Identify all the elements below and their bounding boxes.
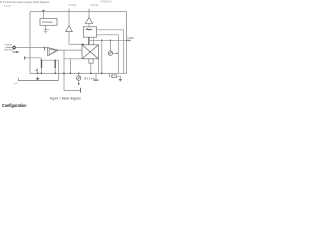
pin B tick and label (charge pump C+) xyxy=(68,9,70,12)
vertical wire x64 down xyxy=(63,50,65,90)
R1 lead to rail xyxy=(41,68,43,73)
wire box to ground xyxy=(116,76,120,79)
svg-text:Cboot2: Cboot2 xyxy=(91,4,100,7)
I1 output arrow down xyxy=(78,80,80,83)
wire pin A to oscillator xyxy=(43,12,45,19)
oscillator box xyxy=(40,19,57,26)
pin C tick and label (Vboost) xyxy=(88,9,90,12)
svg-text:8.1.2 Internal power supply bl: 8.1.2 Internal power supply block diagra… xyxy=(0,0,49,4)
svg-text:Cboot1: Cboot1 xyxy=(69,4,78,7)
svg-text:and driver: and driver xyxy=(4,49,15,52)
buffer triangle U3 (up) xyxy=(85,17,92,23)
svg-text:7.4.3.2: 7.4.3.2 xyxy=(4,5,12,8)
error amplifier U1 xyxy=(48,48,59,56)
R2 lead to rail xyxy=(54,68,56,73)
wire down to divider xyxy=(40,58,42,62)
input pin wire left stub xyxy=(6,46,13,48)
Vout wire xyxy=(89,39,126,41)
svg-text:Cgnd: Cgnd xyxy=(13,83,19,85)
channel line Q1 xyxy=(92,37,94,44)
input pin circle xyxy=(13,46,15,48)
input wire to error amp xyxy=(16,47,48,49)
resistor R2 bar xyxy=(54,60,56,68)
gate bar Q1 xyxy=(88,37,89,44)
wire h1 from box2 xyxy=(97,30,124,74)
svg-text:Oscillator: Oscillator xyxy=(42,20,53,24)
wire y58.8 under X-box xyxy=(64,58,82,60)
wire pin C down xyxy=(88,12,90,18)
wire U2 base down xyxy=(68,32,70,45)
svg-text:ATA6870N: ATA6870N xyxy=(100,1,112,4)
vertical x70.4 to rail xyxy=(69,59,71,74)
buffer triangle U2 (up) xyxy=(66,26,73,32)
end bar xyxy=(80,88,82,93)
wire reference y58 xyxy=(25,57,41,59)
Vout pin tick xyxy=(127,39,131,41)
junction dot divider left xyxy=(41,60,42,61)
svg-text:Figure 7 Block diagram: Figure 7 Block diagram xyxy=(50,96,81,100)
capacitor below oscillator xyxy=(44,25,49,33)
svg-text:Vdd5: Vdd5 xyxy=(127,36,135,40)
inner triangle of U1 xyxy=(49,49,56,55)
wire pin B down xyxy=(68,12,70,26)
current source I1 feed xyxy=(78,73,80,76)
small dot near stub xyxy=(36,70,37,71)
wire v0 down from Vout wire xyxy=(101,40,103,73)
junction dot on Vout wire 1 xyxy=(101,40,103,42)
small box component xyxy=(112,75,116,78)
wire U3 to box2 xyxy=(88,23,90,27)
wire U1 output to X-box xyxy=(58,49,82,51)
pin tick top A (oscillator input) xyxy=(42,10,44,12)
current source I1 xyxy=(77,76,81,80)
wire y90.5 to end bar xyxy=(64,90,81,92)
small arrow glyph xyxy=(13,51,19,53)
stub x37.6 above rail xyxy=(37,68,39,73)
ground stub below X-box corner xyxy=(95,73,97,79)
junction tick input wire xyxy=(43,47,45,51)
junction dot divider right xyxy=(55,60,56,61)
tiny ground mark on bracket wire xyxy=(36,77,39,81)
wire X-box corner to rail xyxy=(98,59,100,74)
divider top wire xyxy=(41,59,58,61)
vertical x58.5 down to bracket xyxy=(58,60,60,80)
wire I2 output arrow xyxy=(113,52,117,54)
wire v1 to current source xyxy=(109,40,111,51)
ground bar xyxy=(94,79,99,81)
regulator box2 xyxy=(83,27,96,37)
tick left end of reference wire xyxy=(24,56,26,59)
ground assembly right: stub from rail xyxy=(109,73,112,76)
block diagram outer border xyxy=(30,12,127,74)
small box below X-box xyxy=(89,59,93,63)
current source I2 xyxy=(108,51,112,55)
svg-text:Configuration: Configuration xyxy=(2,103,27,109)
ground symbol xyxy=(119,80,122,81)
X diagonals xyxy=(82,45,99,59)
bracket wire below box xyxy=(18,78,58,81)
resistor R1 bar xyxy=(41,60,43,68)
junction dot on Vout wire 2 xyxy=(110,40,112,42)
wire h2 from box2 xyxy=(97,35,119,74)
rail junction dots xyxy=(37,73,103,75)
svg-text:Vmeas: Vmeas xyxy=(5,44,13,47)
transistor symbol inside box2 xyxy=(86,29,93,31)
output stage X-box xyxy=(82,45,99,59)
wire to driver with arrowhead xyxy=(69,43,82,45)
svg-text:IB 0.1 mA: IB 0.1 mA xyxy=(84,77,95,80)
wire below small box to rail xyxy=(90,63,92,73)
